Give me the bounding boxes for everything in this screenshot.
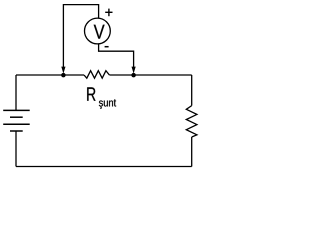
wire right rail lower: [191, 137, 193, 167]
node B junction dot: [131, 73, 136, 78]
wire left rail upper (battery + lead): [15, 75, 17, 110]
voltmeter U1 circle: [85, 18, 111, 44]
label R_shunt: [87, 87, 95, 100]
node A junction dot: [61, 73, 66, 78]
arrowhead right probe: [132, 67, 136, 74]
wire left rail lower (battery - lead): [15, 131, 17, 167]
voltmeter letter V: [94, 25, 105, 39]
minus polarity mark: [105, 46, 109, 48]
battery plate long top: [3, 109, 30, 111]
voltmeter U1 wires: [63, 5, 133, 68]
wire bottom: [16, 166, 192, 168]
wire top-left (battery + to node A): [16, 74, 84, 76]
plus polarity mark: [105, 9, 112, 17]
wire right rail upper: [191, 75, 193, 106]
battery plate short: [10, 116, 23, 118]
wire top-right (R_shunt to load): [109, 74, 191, 76]
battery: [3, 110, 30, 131]
wire probe left vertical: [63, 5, 98, 68]
resistor R_shunt: [84, 71, 109, 79]
battery plate long: [3, 123, 30, 125]
arrowhead left probe: [61, 67, 65, 74]
wire probe bottom from meter: [99, 44, 134, 67]
battery plate short bottom: [10, 130, 23, 132]
resistor R_load: [186, 106, 197, 137]
